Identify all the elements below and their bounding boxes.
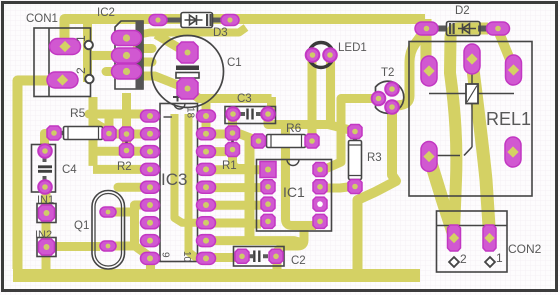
svg-text:IC1: IC1 — [283, 184, 305, 200]
wire IC3 pin9 to ground rail — [146, 258, 155, 272]
wire IC3 pin row to IC1 pin2 — [206, 183, 262, 192]
Q1 pad 2 — [100, 241, 116, 251]
svg-text:T2: T2 — [381, 67, 394, 79]
R1 pad bottom — [226, 143, 240, 157]
capacitor C4 outline — [32, 145, 56, 193]
wire top rail from CON1 pad 1 to D2 anode — [65, 19, 426, 46]
wire C3 R3 net down through IC1 middle to pin5 — [286, 128, 317, 226]
transistor T2 outline — [376, 81, 404, 113]
svg-text:R3: R3 — [367, 152, 382, 164]
svg-text:18: 18 — [185, 107, 196, 119]
svg-text:D2: D2 — [455, 5, 470, 17]
REL1 common pad — [421, 142, 437, 172]
resistor R1 link — [231, 133, 234, 150]
wire IC2 band 3 stub — [137, 58, 152, 67]
IC3 pin 1 — [141, 110, 160, 122]
wire C1 minus pad to C3 right pad band — [189, 91, 272, 111]
IC3 pin 17 — [197, 128, 216, 140]
R6 pad right — [305, 134, 319, 148]
T2 emitter pad — [372, 92, 386, 106]
svg-text:R2: R2 — [117, 161, 132, 173]
IC1 pin 5 — [313, 214, 327, 228]
IC3 pin 2 — [141, 128, 160, 140]
wire IC3 pin row to IC1 pin1 — [206, 165, 262, 174]
IC3 pin 3 — [141, 146, 160, 158]
IC1 pin 8 — [313, 163, 327, 177]
wire D2 anode diagonal down to CON2 pin1 — [450, 29, 488, 233]
IC3 pin 8 — [141, 235, 160, 247]
IC3 pin 13 — [197, 199, 216, 211]
LED LED1 outline — [309, 43, 334, 68]
wire C3 left pad to R1 top — [228, 115, 237, 133]
IC1 pin 1 square pad — [260, 162, 276, 178]
wire IC3 pin16 row to R1 bottom — [206, 147, 226, 156]
IC3 pin 5 — [141, 181, 160, 193]
svg-text:REL1: REL1 — [486, 109, 531, 129]
svg-text:1: 1 — [74, 35, 88, 42]
D2 cathode pad — [487, 22, 510, 35]
svg-text:C3: C3 — [237, 93, 252, 105]
svg-text:D3: D3 — [213, 27, 228, 39]
wire IC3 pin18 to pin17 link — [202, 103, 211, 134]
IC1 pin 4 — [261, 214, 275, 228]
CON2 pin1 hole diamond — [485, 257, 495, 267]
REL1 coil pad A — [421, 56, 437, 86]
C2 pad left — [235, 249, 249, 263]
wire LED1 left pad down to R6 right pad — [308, 57, 317, 139]
IC IC3 outline — [160, 104, 198, 262]
wire D2 cathode diagonal to REL1 pad — [498, 30, 514, 68]
svg-text:1: 1 — [496, 251, 503, 265]
wire R6 left band down along IC1 left side — [245, 139, 255, 240]
C4 pad bottom — [38, 180, 52, 194]
wire IN2 to Q1 pad2 — [50, 242, 100, 251]
R3 pad bottom — [348, 180, 362, 194]
R2 pad top — [120, 127, 134, 141]
C1 negative pad — [177, 78, 198, 99]
svg-text:2: 2 — [460, 252, 467, 266]
wire IC3 pin10 to C2 left pad — [206, 253, 240, 262]
wire branch to R5 right pad — [93, 122, 108, 131]
IC3 pin 16 — [197, 146, 216, 158]
connector CON1 outline — [34, 28, 91, 97]
input IN1 pad box — [37, 204, 56, 223]
wire Q1 pad1 to IC3 pin6 — [108, 205, 148, 246]
wire R1 bottom pad to IC1 pin1 band — [233, 151, 253, 169]
wire IC3 internal vertical A — [175, 114, 203, 223]
svg-text:IN1: IN1 — [37, 194, 54, 206]
svg-text:IC2: IC2 — [97, 7, 115, 19]
wire D2 anode vertical through REL1 coil pad — [421, 19, 432, 68]
svg-text:R1: R1 — [222, 160, 237, 172]
IC1 pin 2 — [261, 180, 275, 194]
wire IC3 pin row to IC1 pin3 — [206, 201, 262, 210]
wire bottom ground rail — [13, 269, 420, 282]
capacitor C1 outline circle — [152, 36, 224, 108]
IC U IC2 outline with tab bar — [115, 21, 143, 89]
CON1 pad 1 — [50, 39, 81, 55]
CON1 pin1 hole — [85, 41, 93, 49]
IN1 pad — [39, 205, 55, 221]
svg-text:CON2: CON2 — [508, 242, 542, 256]
svg-text:LED1: LED1 — [338, 42, 367, 54]
svg-text:C2: C2 — [291, 255, 306, 267]
wire horizontal band to C2 right pad area — [206, 241, 301, 243]
resistor R3 body vertical — [353, 134, 358, 144]
D3 cathode pad — [221, 15, 239, 26]
input IN2 pad box — [37, 238, 56, 257]
CON2 pad 2 — [448, 225, 461, 251]
IC2 pad 1 — [112, 31, 142, 46]
wire R5 right pad up to row — [105, 116, 114, 133]
wire CON1 pin1 hole drop to IC2 pin2 — [83, 21, 92, 82]
R3 pad top — [348, 125, 362, 139]
IC1 pin 7 — [313, 180, 327, 194]
IC2 pad 2 — [112, 48, 142, 63]
IC3 pin 7 — [141, 217, 160, 229]
IC3 pin1 mark — [164, 116, 173, 118]
capacitor C3 outline — [225, 107, 276, 124]
svg-text:10: 10 — [181, 251, 192, 263]
CON1 pad 2 — [47, 72, 78, 88]
IC3 pin 9 — [141, 252, 160, 264]
R5 pad left — [47, 126, 61, 140]
T2 base pad — [385, 82, 399, 96]
REL1 contact pad NC — [505, 137, 521, 167]
C3 pad right — [261, 107, 275, 121]
IC IC1 outline — [257, 160, 332, 232]
CON1 pin2 hole — [85, 75, 93, 83]
REL1 coil pad B — [464, 44, 480, 74]
D2 anode pad — [415, 22, 438, 35]
wire IC1 pin5 to C2 right pad — [277, 226, 304, 252]
D3 anode pad — [149, 15, 167, 26]
R6 pad left — [252, 134, 266, 148]
wire IC2 band 2 stub — [137, 44, 152, 53]
wire C3 right pad to R3 top pad — [268, 115, 352, 131]
C1 polarity plus — [173, 93, 182, 102]
C1 positive pad — [177, 42, 198, 63]
svg-text:IN2: IN2 — [35, 229, 52, 241]
IC3 pin 10 — [197, 252, 216, 264]
wire R2 bottom to IC3 pin3 — [97, 147, 148, 156]
svg-text:IC3: IC3 — [161, 170, 187, 189]
C2 pad right — [269, 249, 283, 263]
resistor R6 body — [261, 139, 270, 144]
IC1 pin 6 — [313, 197, 327, 211]
wire C4 bottom pad to IN1 to IN2 to ground rail — [42, 188, 51, 271]
resistor R2 link — [125, 134, 128, 151]
C1 plate symbols — [176, 66, 199, 71]
wire REL1 coil pad down to CON2 pin2 — [472, 62, 490, 234]
C4 pad top — [38, 144, 52, 158]
svg-text:Q1: Q1 — [74, 220, 89, 232]
LED1 anode pad — [306, 48, 320, 62]
IC3 pin 12 — [197, 217, 216, 229]
IC1 pin 3 — [261, 197, 275, 211]
IC3 pin 6 — [141, 199, 160, 211]
R1 pad top — [226, 126, 240, 140]
wire CON1 pad 2 to left edge and down to bottom rail — [18, 81, 65, 270]
wire R5 left pad to C4 top pad — [45, 134, 54, 151]
wire IC3 pin row stub to IC1 pin4 — [206, 219, 244, 228]
svg-text:C4: C4 — [62, 164, 77, 176]
LED1 cathode pad — [323, 48, 337, 62]
wire T2 emitter to IC1 pin8 — [324, 99, 377, 170]
IC3 pin 15 — [197, 163, 216, 175]
wire branch into C1 plus pad — [156, 35, 184, 52]
svg-text:R5: R5 — [70, 106, 86, 120]
IC3 pin 14 — [197, 181, 216, 193]
wire IC2 pin3 down to R2 top pad — [122, 93, 131, 150]
IC3 pin 18 — [197, 110, 216, 122]
connector CON2 outline — [437, 211, 508, 272]
crystal Q1 outline — [92, 191, 125, 270]
wire IC2 band to top rail — [137, 28, 246, 36]
REL1 switch symbol — [464, 147, 472, 156]
wire T2 collector down chevron to ground rail — [358, 108, 397, 270]
svg-text:C1: C1 — [227, 57, 242, 69]
relay REL1 outline — [409, 42, 532, 197]
REL1 contact pad NO — [506, 55, 522, 85]
IC2 pad 3 — [112, 64, 142, 79]
wire stub to IC3 pin5 — [118, 183, 148, 192]
T2 collector pad — [385, 100, 399, 114]
REL1 coil symbol — [429, 93, 466, 95]
wire IC3 internal vertical B — [189, 114, 204, 258]
CON2 pin2 hole diamond — [449, 257, 459, 267]
CON2 pad 1 — [483, 225, 496, 251]
diode D2 body — [436, 26, 446, 32]
wire T2 base diagonal up to D2 anode — [394, 29, 426, 106]
resistor R5 body — [57, 131, 66, 136]
svg-text:2: 2 — [74, 67, 88, 74]
wire REL1 common pad to CON2 pin1 — [430, 158, 454, 234]
svg-text:9: 9 — [160, 252, 171, 258]
wire LED1 right pad down to R3 band — [326, 57, 335, 125]
wire C2 right pad stub to ground rail — [273, 257, 282, 271]
IC3 pin 11 — [197, 235, 216, 247]
svg-text:R6: R6 — [286, 121, 302, 135]
diode D3 body — [165, 18, 182, 23]
wire R2 row to IC3 pin2 — [109, 130, 148, 139]
wire IC1 pin7 to R3 bottom pad — [320, 187, 352, 189]
wire stub to IC3 pin 1 row — [89, 110, 148, 119]
wire IC2 band 4 to C1 minus pad — [137, 76, 184, 88]
Q1 pad 1 — [100, 207, 116, 217]
IC3 pin 4 — [141, 163, 160, 175]
IN2 pad — [39, 239, 55, 255]
R5 pad right — [102, 127, 116, 141]
wire vertical to IC1 pin4 — [250, 220, 261, 229]
wire IC3 pin2 row to R6 left pad — [206, 134, 257, 141]
svg-text:CON1: CON1 — [26, 13, 58, 25]
wire vertical under CON1 down to IC3 pin4 row — [93, 97, 147, 169]
R2 pad bottom — [120, 144, 134, 158]
capacitor C2 outline — [234, 247, 285, 267]
C3 pad left — [226, 107, 240, 121]
wire Q1 pad2 to IC3 pin9 — [110, 246, 148, 256]
